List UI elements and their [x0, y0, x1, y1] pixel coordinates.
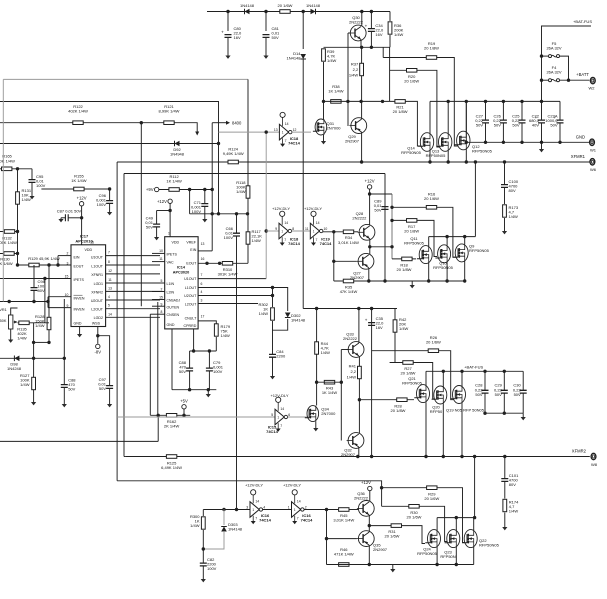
svg-text:40V: 40V: [532, 123, 539, 128]
wire Q20 source: [442, 404, 444, 457]
wire L1OUT row IC14: [198, 288, 288, 312]
wire C22A upper lead: [559, 101, 561, 120]
wire C101 branch: [504, 457, 506, 479]
transistor Q31: [313, 119, 341, 135]
wire y441 row: [0, 440, 158, 442]
wire D14 branch: [302, 12, 304, 50]
svg-text:VDD: VDD: [85, 248, 93, 252]
wire C30 lower: [522, 393, 524, 413]
svg-text:1/4W: 1/4W: [252, 238, 262, 243]
capacitor C87: [57, 209, 82, 222]
wire C84 lower: [272, 357, 274, 376]
svg-text:74C14: 74C14: [259, 518, 272, 523]
wire C29 upper: [503, 371, 505, 390]
svg-text:1/4W: 1/4W: [394, 32, 404, 37]
wire Q35 base row: [327, 538, 357, 540]
potentiometer VR1: [0, 308, 18, 329]
wire C95 gnd lead: [31, 182, 33, 196]
svg-text:13: 13: [108, 287, 112, 291]
wire R131 line: [17, 169, 19, 254]
svg-text:80V: 80V: [509, 188, 516, 193]
svg-text:8,99K 1/4W: 8,99K 1/4W: [159, 109, 180, 114]
label R127: [20, 373, 30, 387]
ground IC14 caps: [206, 394, 211, 397]
wire source bus B: [334, 280, 465, 282]
wire U1OUT row IC14: [198, 278, 266, 280]
svg-text:2: 2: [67, 252, 69, 256]
wire C34 lower lead: [370, 31, 372, 47]
junction dot caps bottom: [188, 388, 210, 391]
svg-text:EIN: EIN: [74, 256, 80, 260]
svg-text:50V: 50V: [494, 123, 501, 128]
junction dot R121: [140, 121, 143, 124]
pin 16 IC17: [90, 241, 94, 245]
svg-text:7: 7: [285, 139, 287, 143]
svg-text:+12V-DLY: +12V-DLY: [283, 483, 301, 488]
svg-text:8400: 8400: [232, 121, 242, 126]
junction dots caps row: [192, 349, 211, 352]
wire C34 leads: [370, 12, 372, 29]
wire Q11 drain: [428, 237, 430, 246]
ground Q34: [313, 428, 318, 431]
svg-text:VDD: VDD: [172, 241, 180, 245]
svg-text:+12V: +12V: [77, 196, 87, 201]
transistor Q11: [404, 236, 432, 264]
svg-text:LGD2: LGD2: [94, 316, 103, 320]
junction dots cap bottom rail: [465, 141, 562, 144]
wire gray feedback top: [3, 78, 248, 80]
wire C96 branch: [109, 189, 111, 201]
ground C84: [270, 376, 275, 379]
svg-text:50V: 50V: [550, 123, 557, 128]
wire C100 branch: [504, 162, 506, 184]
transistor Q13: [426, 133, 452, 158]
wire caps bottom row: [172, 389, 216, 391]
svg-text:CNSEN: CNSEN: [167, 313, 180, 317]
transistor Q10: [433, 245, 454, 270]
wire vertical x158 upper: [157, 302, 159, 415]
svg-text:L2OUT: L2OUT: [91, 308, 103, 312]
svg-text:+BAT-FUS: +BAT-FUS: [573, 19, 592, 24]
svg-text:XFMR1: XFMR1: [571, 154, 586, 159]
junction dots mid row: [32, 341, 51, 344]
svg-text:XFNR1: XFNR1: [91, 273, 103, 277]
pin 4 IC17r: [108, 295, 110, 299]
pin 4 IC14: [201, 290, 203, 294]
wire inv out drop: [326, 510, 328, 565]
transistor Q30: [349, 15, 366, 41]
power +5V: [180, 399, 188, 409]
svg-text:20 1/6W: 20 1/6W: [385, 534, 400, 539]
svg-text:1/4W: 1/4W: [321, 350, 331, 355]
svg-text:2,2: 2,2: [350, 369, 356, 374]
svg-text:4: 4: [263, 505, 265, 509]
transistor Q36: [354, 491, 374, 516]
wire Q30 collector: [361, 12, 363, 26]
wire top supply rail: [207, 11, 390, 13]
wire C87 right: [68, 217, 81, 219]
capacitor C81: [263, 26, 281, 40]
svg-text:11: 11: [159, 257, 163, 261]
power +9V: [146, 187, 159, 192]
svg-text:74C14: 74C14: [320, 241, 333, 246]
wire source bus D: [327, 564, 474, 566]
label +12V-DLY a: [272, 206, 290, 211]
svg-text:15: 15: [159, 296, 163, 300]
svg-text:L1IN: L1IN: [167, 282, 175, 286]
svg-text:2N2222: 2N2222: [354, 496, 369, 501]
resistor R31: [385, 524, 402, 539]
wire IC14 L2IN: [152, 291, 165, 293]
wire C28 upper: [484, 371, 486, 390]
wire C88 gnd: [63, 387, 65, 404]
wire C30 upper: [522, 371, 524, 390]
wire Q12 source: [465, 150, 467, 163]
inverter IC19: [305, 211, 332, 246]
svg-text:13: 13: [201, 242, 205, 246]
svg-text:20 1/6W: 20 1/6W: [424, 496, 439, 501]
svg-text:RFP50N05: RFP50N05: [404, 241, 425, 246]
junction dot emit B: [368, 245, 371, 248]
wire ground stub cap bank: [541, 142, 543, 149]
pin 1 IC14: [168, 232, 170, 236]
junction dot R155: [108, 187, 111, 190]
capacitor C97: [98, 377, 113, 391]
power +12V secD: [361, 480, 372, 491]
ground bank D: [390, 569, 395, 572]
wire INVEN row2: [48, 307, 71, 309]
pin 15 IC14: [159, 296, 163, 300]
transistor Q32: [341, 433, 364, 458]
resistor R122: [68, 104, 88, 125]
wire F5 to F4: [560, 56, 569, 80]
pin 7 IC14: [201, 273, 203, 277]
junction dots source bus D: [368, 563, 458, 566]
label +BAT-FUS: [573, 19, 592, 24]
junction dot R132: [16, 230, 19, 233]
wire R29 vert: [381, 488, 383, 507]
svg-text:50V: 50V: [476, 123, 483, 128]
junction dot base D: [325, 537, 328, 540]
svg-text:74C14: 74C14: [288, 241, 301, 246]
svg-text:9,49K 1/4W: 9,49K 1/4W: [223, 151, 244, 156]
svg-text:100V: 100V: [36, 183, 46, 188]
wire emitter node A: [324, 46, 391, 48]
svg-text:80V: 80V: [509, 482, 516, 487]
wire Q23 drain: [455, 518, 457, 530]
power +12V IC14: [157, 199, 172, 204]
wire drop to y441: [157, 415, 159, 441]
resistor R41: [358, 366, 362, 378]
transistor Q35: [357, 531, 388, 552]
label R165 value: [0, 158, 15, 163]
wire VDD riser IC14: [169, 204, 171, 237]
resistor R38: [328, 84, 344, 103]
resistor R174: [503, 499, 519, 513]
svg-text:RFP50N05: RFP50N05: [433, 265, 454, 270]
resistor R46: [339, 563, 349, 567]
ground C81: [263, 56, 268, 59]
junction dots drain bus D: [455, 516, 477, 519]
power -8V: [95, 344, 102, 354]
junction dots R162: [157, 414, 186, 417]
svg-text:1: 1: [288, 505, 290, 509]
wire Q22 source: [473, 547, 475, 564]
svg-text:7: 7: [201, 273, 203, 277]
wire R16 line: [392, 207, 456, 257]
label R44: [321, 341, 331, 355]
pin 13 IC17r: [108, 287, 112, 291]
transistor Q19: [450, 386, 465, 404]
wire Q30 base line: [348, 32, 350, 34]
wire vertical x141: [140, 123, 142, 307]
label +12V-DLY b: [304, 206, 322, 211]
svg-text:3: 3: [246, 505, 248, 509]
transistor Q21: [414, 385, 429, 403]
resistor R179: [214, 324, 218, 336]
resistor R21: [393, 100, 408, 115]
wire R135 right: [30, 322, 50, 324]
wire inv3-inv4: [263, 509, 292, 511]
transistor Q23: [440, 530, 459, 560]
wire C87 gnd stub: [60, 218, 62, 219]
wire Q14 source: [429, 151, 431, 162]
wire C26 lower lead: [502, 123, 504, 142]
wire IC14 CNSEN: [150, 313, 164, 315]
wire C87 row: [61, 217, 65, 219]
label R131: [22, 188, 32, 202]
wire C71 branch: [204, 190, 206, 204]
svg-text:2: 2: [161, 288, 163, 292]
terminal GND W1: [576, 135, 597, 153]
wire Q20 drain: [442, 371, 444, 386]
wire C88b lower: [189, 371, 191, 390]
wire IC17 L1OUT: [106, 264, 160, 266]
resistor R28: [391, 398, 408, 413]
wire drain feed x475: [474, 162, 476, 237]
resistor R37: [360, 63, 364, 75]
wire IPETS drop: [44, 279, 46, 323]
pin 11 IC14: [159, 257, 163, 261]
wire R36 lower: [389, 35, 391, 47]
wire R36 branch: [389, 12, 391, 22]
junction dots gates C: [358, 398, 361, 401]
svg-text:7: 7: [255, 516, 257, 520]
terminal XFMR1 W6: [571, 154, 597, 172]
wire BAT-FUS riser: [542, 26, 592, 101]
wire C26 upper lead: [502, 101, 504, 120]
wire Q13 source: [447, 151, 449, 162]
svg-text:3: 3: [201, 299, 203, 303]
junction dot R43: [315, 381, 318, 384]
svg-text:+: +: [365, 318, 368, 323]
wire R300 line: [202, 510, 204, 517]
svg-text:74C14: 74C14: [288, 141, 301, 146]
wire C22 lower lead: [541, 123, 543, 142]
ground C87: [58, 219, 63, 222]
transistor Q22: [462, 530, 477, 548]
svg-text:14: 14: [108, 312, 112, 316]
svg-text:471K 1/4W: 471K 1/4W: [334, 552, 354, 557]
junction dot R165: [16, 167, 19, 170]
wire R27 line: [390, 363, 436, 399]
svg-text:100V: 100V: [224, 235, 234, 240]
ground R173: [502, 231, 507, 234]
svg-text:301K 1/4W: 301K 1/4W: [218, 272, 238, 277]
junction dots XFMR2 rail: [356, 455, 506, 458]
pin numbers IC17 left: [67, 252, 69, 256]
fuse F5: [546, 41, 561, 58]
wire EOUT row IC14: [198, 262, 248, 264]
resistor R35: [340, 279, 358, 294]
wire R130 row: [0, 253, 18, 255]
junction dot 12V: [368, 192, 371, 195]
wire drive line y101 right: [324, 101, 421, 146]
svg-text:3,01K 1/4W: 3,01K 1/4W: [333, 518, 354, 523]
svg-text:2N2907: 2N2907: [345, 139, 360, 144]
wire R18 line: [392, 258, 416, 260]
wire base vert C: [340, 350, 342, 441]
svg-text:IC14: IC14: [177, 266, 186, 270]
ground IC17: [77, 334, 82, 337]
wire bus vertical x117: [116, 162, 118, 481]
wire IC14 OUTEN: [152, 305, 165, 307]
svg-text:20 1/8W: 20 1/8W: [393, 109, 408, 114]
resistor R132: [4, 230, 14, 234]
svg-text:+BATT: +BATT: [576, 72, 589, 77]
wire IC15 out: [288, 416, 308, 418]
wire F4 to +BATT: [560, 79, 590, 81]
svg-text:1K 1/4W: 1K 1/4W: [322, 390, 338, 395]
wire rail y481: [117, 481, 382, 488]
svg-text:EOUT: EOUT: [74, 265, 85, 269]
svg-text:1: 1: [313, 229, 315, 233]
svg-text:50V: 50V: [495, 392, 502, 397]
svg-text:CPRRD: CPRRD: [184, 324, 197, 328]
wire Q9 drain: [464, 237, 466, 244]
wire C71 gnd: [204, 206, 206, 219]
diode D92: [170, 141, 185, 157]
wire C49 gnd: [156, 227, 158, 237]
wire INVEN left: [0, 301, 48, 303]
junction dot D98: [32, 357, 35, 360]
wire R302 line: [272, 288, 274, 308]
wire gnd stub caps C: [522, 413, 524, 417]
svg-text:R41: R41: [349, 364, 357, 369]
svg-text:10: 10: [159, 249, 163, 253]
wire gnd stub B: [411, 281, 413, 285]
wire 12VDLY feed row: [190, 213, 248, 215]
svg-text:U2OUT: U2OUT: [91, 299, 104, 303]
svg-text:RFP50N05: RFP50N05: [479, 543, 500, 548]
wire C49 lead: [156, 211, 158, 225]
wire emitter vert C: [358, 356, 360, 434]
wire CNSEN vertical: [149, 314, 151, 415]
svg-text:RFP50N05: RFP50N05: [469, 248, 490, 253]
svg-text:1: 1: [252, 508, 254, 512]
wire R17 line: [392, 220, 437, 256]
wire Q21 source: [425, 403, 427, 457]
diode D303: [221, 522, 243, 532]
wire C96 gnd: [109, 203, 111, 212]
svg-text:20 1/8W: 20 1/8W: [424, 46, 439, 51]
svg-text:100V: 100V: [213, 369, 223, 374]
wire IC17 U1OUT: [106, 255, 160, 257]
label R46: [334, 547, 354, 557]
wire IC18 input: [219, 131, 280, 133]
svg-text:1/4W: 1/4W: [190, 523, 200, 528]
svg-text:16V: 16V: [234, 35, 241, 40]
wire Q11 source: [428, 264, 430, 282]
junction dots row213: [211, 212, 250, 215]
svg-text:20 1/6W: 20 1/6W: [424, 196, 439, 201]
svg-text:2N2222: 2N2222: [352, 216, 367, 221]
svg-text:+: +: [221, 30, 224, 35]
pin 8 IC14: [161, 310, 163, 314]
wire C81 to ground: [265, 38, 267, 56]
svg-text:7: 7: [316, 238, 318, 242]
wire drain feed D: [474, 457, 476, 518]
wire R29 line: [382, 488, 466, 543]
pin 10 IC14: [159, 249, 163, 253]
svg-text:+9V: +9V: [146, 187, 154, 192]
junction dot R130: [16, 252, 19, 255]
wire 5V stub: [183, 409, 185, 415]
junction dot L1OUT: [271, 286, 274, 289]
svg-text:8: 8: [161, 310, 163, 314]
junction dots BATFUS bus: [442, 370, 506, 373]
wire Q27 base: [334, 260, 357, 262]
resistor R44: [315, 342, 319, 354]
wire WSS pin: [97, 327, 99, 344]
wire C81 branch: [265, 12, 267, 32]
label Q22: [479, 538, 500, 548]
svg-text:+BAT-FUS: +BAT-FUS: [464, 364, 483, 369]
transistor Q27: [350, 253, 374, 280]
wire R112 to row: [189, 190, 191, 214]
wire Q35 collector: [368, 545, 370, 564]
svg-text:WSS: WSS: [92, 322, 101, 326]
resistor R155: [71, 174, 87, 191]
wire R43 row: [317, 381, 342, 383]
junction dot emit D: [368, 524, 371, 527]
svg-text:50V: 50V: [68, 387, 75, 392]
label R132: [0, 236, 17, 246]
wire C35 line: [371, 309, 373, 457]
transistor Q24: [417, 530, 440, 557]
svg-text:9: 9: [275, 227, 277, 231]
wire XFMR2 rail: [126, 456, 590, 458]
wire CNULT row: [198, 321, 216, 324]
label Q9: [469, 244, 490, 254]
svg-text:1: 1: [282, 131, 284, 135]
svg-text:+5V: +5V: [180, 399, 188, 404]
wire x17 to EOUT: [17, 254, 19, 266]
diode D12 top-left: [240, 3, 255, 14]
resistor R127: [32, 377, 36, 389]
node 8400 arrow: [226, 121, 242, 126]
svg-text:INVEN: INVEN: [74, 297, 85, 301]
wire R132 line: [0, 231, 18, 233]
svg-text:+12V-DLY: +12V-DLY: [272, 206, 290, 211]
capacitor C27: [475, 114, 489, 128]
wire inv1 input: [266, 230, 279, 232]
junction dot C82: [202, 547, 205, 550]
resistor R300: [201, 517, 205, 529]
svg-text:4: 4: [108, 295, 110, 299]
resistor R42: [393, 320, 397, 332]
wire bottom inv input row: [203, 509, 250, 511]
